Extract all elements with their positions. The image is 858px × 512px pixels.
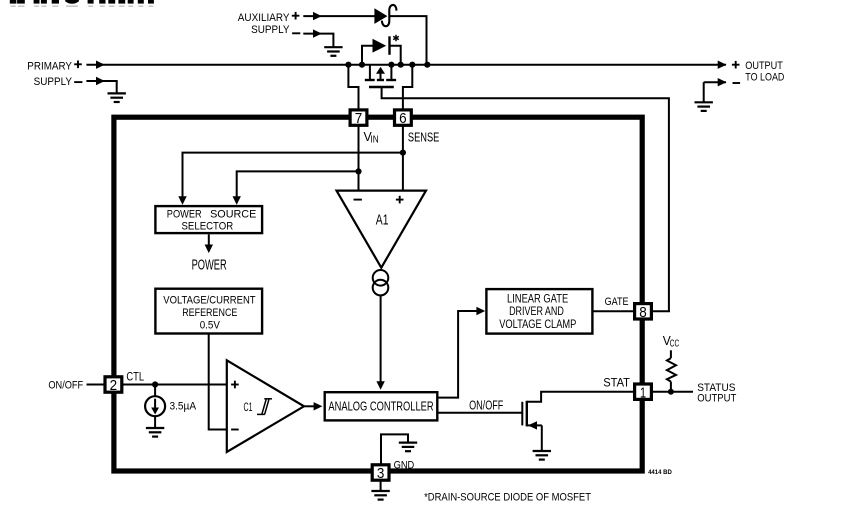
node PRIMARY SUPPLY labels: [27, 61, 82, 88]
wire C1 output to analog controller: [304, 402, 322, 410]
current source I2 3.5uA: [145, 385, 165, 428]
svg-text:2: 2: [110, 377, 118, 394]
wire aux+ with arrow: [303, 12, 374, 20]
svg-text:SOURCE: SOURCE: [210, 209, 256, 221]
ground (primary supply): [108, 93, 126, 102]
wire aux- to ground: [303, 29, 334, 46]
block ANALOG CONTROLLER: [325, 392, 438, 420]
current source I1 below A1: [373, 270, 389, 295]
wire driver to pin 8: [592, 310, 634, 312]
block POWER SOURCE SELECTOR: [155, 206, 262, 233]
ground (auxiliary supply): [324, 47, 342, 56]
label STATUS OUTPUT: [697, 382, 736, 405]
svg-text:IN: IN: [371, 134, 379, 145]
pin 7: [350, 110, 367, 127]
svg-text:DRIVER AND: DRIVER AND: [509, 306, 564, 318]
wire primary- to ground: [86, 77, 117, 93]
node + OUTPUT TO LOAD: [732, 60, 785, 83]
svg-text:POWER: POWER: [192, 257, 227, 273]
svg-text:CTL: CTL: [126, 370, 144, 384]
wire pin7 to A1 minus input: [358, 126, 360, 191]
IC boundary box: [114, 117, 642, 471]
resistor R1 pull-up: [667, 350, 676, 391]
pin 2: [105, 377, 122, 394]
svg-text:AUXILIARY: AUXILIARY: [238, 12, 290, 24]
node CTL junction dot: [152, 381, 158, 387]
svg-text:VOLTAGE CLAMP: VOLTAGE CLAMP: [499, 319, 576, 331]
ground (output): [695, 102, 713, 111]
transistor Q2 status NMOS: [522, 401, 542, 451]
block LINEAR GATE DRIVER AND VOLTAGE CLAMP: [486, 289, 592, 334]
heading "BLOCK DIAGRAM" bottom sliver (cut off at top of page): [10, 0, 154, 7]
wire internal ground from pin 3: [381, 434, 408, 464]
svg-text:ON/OFF: ON/OFF: [48, 380, 83, 392]
svg-text:LINEAR GATE: LINEAR GATE: [507, 294, 568, 306]
svg-text:OUTPUT: OUTPUT: [745, 60, 783, 72]
wire SENSE drop to pin 6: [403, 65, 412, 109]
wire A1 current source to analog controller: [376, 295, 384, 389]
node AUXILIARY SUPPLY labels: [238, 12, 301, 36]
svg-text:VOLTAGE/CURRENT: VOLTAGE/CURRENT: [163, 294, 256, 306]
ground (internal): [399, 443, 417, 452]
svg-text:SELECTOR: SELECTOR: [182, 221, 234, 233]
wire pin 8 external: [651, 310, 670, 312]
wire analog controller to linear gate driver: [438, 307, 485, 398]
svg-text:1: 1: [640, 384, 646, 401]
svg-text:POWER: POWER: [167, 209, 202, 221]
svg-text:7: 7: [355, 110, 363, 127]
svg-text:0.5V: 0.5V: [200, 320, 221, 332]
diode D1 (Schottky, auxiliary): [374, 5, 396, 26]
svg-text:6: 6: [399, 110, 407, 127]
label VCC: [663, 333, 679, 350]
node junction dots on main line: [345, 62, 430, 68]
wire VIN drop to pin 7: [348, 65, 358, 109]
wire pin1 to Q2 drain: [527, 392, 635, 402]
op-amp A1: [337, 191, 427, 268]
pin 3: [372, 465, 389, 482]
wire sense tap to selector (upper): [178, 150, 406, 205]
ground (Q2 source): [533, 451, 551, 460]
svg-text:REFERENCE: REFERENCE: [182, 307, 237, 319]
pin 8: [635, 304, 652, 321]
svg-text:3.5µA: 3.5µA: [170, 401, 197, 413]
svg-text:PRIMARY: PRIMARY: [27, 61, 72, 73]
wire pin 3 to external ground: [380, 480, 382, 490]
svg-text:GATE: GATE: [605, 296, 629, 308]
svg-text:3: 3: [377, 465, 385, 482]
svg-text:STAT: STAT: [603, 376, 630, 390]
wire reference to C1 minus input: [209, 334, 227, 430]
wire aux diode to main line: [389, 16, 426, 65]
wire pin6 to A1 plus input: [402, 126, 404, 191]
wire output minus to ground: [704, 78, 727, 102]
svg-text:8: 8: [639, 304, 647, 321]
svg-text:*DRAIN-SOURCE DIODE OF MOSFET: *DRAIN-SOURCE DIODE OF MOSFET: [424, 492, 591, 504]
svg-text:OUTPUT: OUTPUT: [697, 393, 736, 405]
wire vin tap to selector (lower): [233, 168, 362, 205]
pin 1: [635, 384, 652, 401]
wire analog controller ON/OFF to Q2 gate: [438, 412, 521, 414]
svg-text:SENSE: SENSE: [408, 130, 440, 145]
wire ON/OFF to pin 2: [87, 384, 107, 386]
wire gate of Q1 to pin 8 line: [382, 87, 669, 311]
pin 6: [395, 110, 412, 127]
hysteresis glyph: [257, 399, 272, 415]
svg-text:GND: GND: [394, 460, 415, 472]
svg-text:CC: CC: [670, 338, 679, 349]
ground (pin 3 external): [371, 491, 389, 500]
label VIN: [364, 129, 379, 145]
svg-text:ANALOG CONTROLLER: ANALOG CONTROLLER: [328, 398, 433, 413]
svg-text:A1: A1: [376, 213, 389, 229]
diode D2 body diode of MOSFET: [362, 35, 401, 65]
wire main power line: [86, 61, 726, 69]
svg-text:C1: C1: [244, 400, 253, 414]
block VOLTAGE/CURRENT REFERENCE 0.5V: [155, 289, 262, 334]
svg-text:4414 BD: 4414 BD: [648, 469, 672, 476]
wire pin 2 to C1 plus input: [122, 384, 227, 386]
wire selector to POWER with arrow: [205, 234, 213, 253]
ground (3.5uA source): [146, 428, 164, 437]
svg-text:ON/OFF: ON/OFF: [469, 398, 503, 412]
comparator C1: [227, 360, 304, 452]
node resistor/stat junction dot: [668, 389, 674, 395]
svg-text:SUPPLY: SUPPLY: [34, 76, 73, 88]
svg-text:TO LOAD: TO LOAD: [745, 71, 784, 83]
svg-text:SUPPLY: SUPPLY: [251, 24, 289, 36]
transistor Q1 external power PMOS: [365, 65, 396, 87]
wire pin1 to status output: [651, 391, 693, 393]
